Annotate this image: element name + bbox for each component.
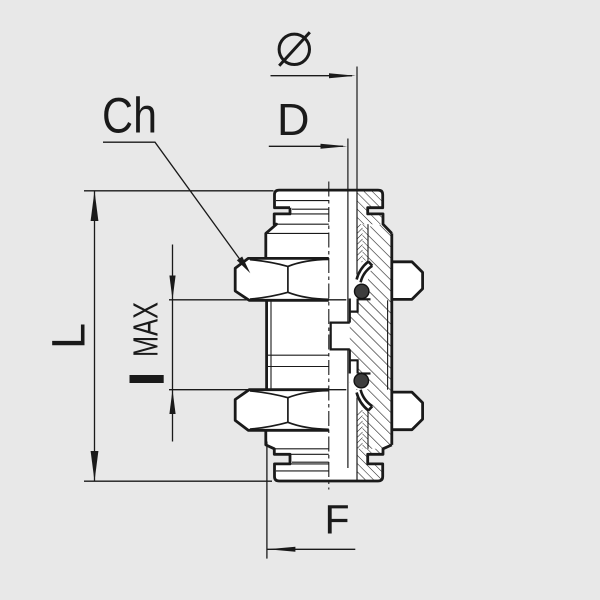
dimension Oslash arrow: [329, 73, 356, 78]
collet OD edge lower: [367, 411, 369, 449]
dimension MAX arrow bottom: [169, 390, 175, 414]
dimension F line: [267, 548, 355, 550]
O-ring upper: [355, 284, 369, 298]
thin edge: thread runout line 2: [267, 366, 329, 368]
O-ring pocket upper (white): [350, 283, 369, 299]
dimension L extension line top: [84, 190, 274, 192]
dimension MAX arrow top: [169, 276, 175, 300]
thin edge: groove floor top: [292, 208, 329, 210]
section hatch: collet sleeve column A (lower): [357, 410, 363, 449]
section hatch: outer wall lower (big): [368, 390, 392, 449]
dimension F arrow: [267, 547, 295, 552]
label diameter symbol: [279, 34, 309, 64]
O-ring lower: [354, 374, 368, 388]
bottom collet cap stack white: [266, 445, 392, 481]
dimension F extension line: [266, 442, 268, 559]
leader line Ch: [103, 142, 247, 268]
bore line D (lower): [347, 349, 349, 468]
outline: body right side full: [390, 233, 393, 445]
outline: barrel left side: [265, 300, 268, 389]
outline: bottom body + cap profile: [266, 430, 392, 481]
section hatch: outer wall upper (big): [368, 224, 392, 300]
hex facet arcs lower nut: [250, 391, 329, 430]
centerline: [328, 182, 330, 490]
section hatch: body wall column B (upper): [363, 224, 369, 262]
O-ring pocket lower (white): [350, 360, 358, 373]
bore wall upper: [349, 299, 351, 323]
thin edge: lower chamfer across: [274, 448, 329, 450]
dimension L arrow top: [91, 191, 99, 221]
thin edge: thread root right: [387, 300, 389, 389]
svg-text:Ch: Ch: [102, 88, 157, 144]
pocket wall lower: [350, 360, 358, 373]
bore line Oslash (upper): [356, 67, 358, 282]
section hatch: threaded barrel (big): [350, 300, 392, 389]
thin edge: lower groove across: [290, 463, 329, 465]
ledge under upper O-ring: [358, 298, 371, 300]
dimension MAX line: [172, 245, 174, 442]
collet claw lower: [354, 387, 374, 412]
hex facet corner line upper: [287, 266, 289, 292]
section hatch: bottom cap (fine): [357, 449, 383, 481]
thin edge: bottom cap inner ring: [276, 470, 329, 472]
bore line Oslash (lower): [356, 391, 358, 481]
thin edge: thread root left: [270, 300, 272, 389]
dimension MAX extension top: [169, 299, 346, 301]
dimension L arrow bottom: [91, 451, 99, 481]
section hatch: body wall column B (lower): [363, 410, 369, 449]
dimension MAX extension bottom: [169, 389, 346, 391]
section hatch: top cap (fine): [357, 190, 383, 224]
fitting body white silhouette: top collet cap stack: [266, 190, 392, 233]
svg-text:MAX: MAX: [127, 302, 166, 357]
dimension L extension line bottom: [84, 480, 272, 482]
thin edge: groove floor bottom: [292, 461, 329, 463]
leader arrow Ch: [237, 257, 251, 274]
dimension Oslash line: [271, 75, 353, 77]
hex nut upper white: [235, 258, 422, 300]
fitting main body white rect: [266, 232, 392, 446]
dimension D line: [269, 145, 343, 147]
hex facet corner line lower: [287, 398, 289, 423]
svg-text:D: D: [277, 94, 310, 145]
svg-text:L: L: [42, 323, 95, 349]
bore line D (upper): [347, 139, 349, 323]
collet claw upper: [354, 260, 374, 285]
dimension D arrow: [321, 144, 348, 149]
thin edge: cap inner ring top: [276, 200, 329, 202]
thin edge: thread runout line 1: [267, 354, 329, 356]
collet OD edge upper: [367, 224, 369, 261]
hex nut lower white: [235, 390, 422, 431]
outline: top cap + flange profile: [266, 190, 392, 258]
dimension L line: [94, 191, 96, 481]
section hatch: collet sleeve column A (upper): [357, 224, 363, 262]
thin edge: chamfer bottom across top: [266, 232, 329, 234]
outline: hex nut lower: [235, 390, 422, 431]
label I: [130, 375, 164, 383]
thin edge: flange bottom across top: [277, 223, 329, 225]
thin edge: lower flange across: [274, 453, 329, 455]
thin edge: groove bottom across top: [290, 213, 329, 215]
ledge above lower O-ring: [358, 372, 371, 374]
pocket wall upper: [350, 299, 358, 312]
outline: hex nut upper: [235, 258, 422, 300]
hex facet arcs upper nut: [250, 259, 329, 299]
svg-text:F: F: [325, 497, 350, 543]
bore step shoulder (notch): [331, 323, 350, 350]
bore wall lower: [349, 349, 351, 373]
